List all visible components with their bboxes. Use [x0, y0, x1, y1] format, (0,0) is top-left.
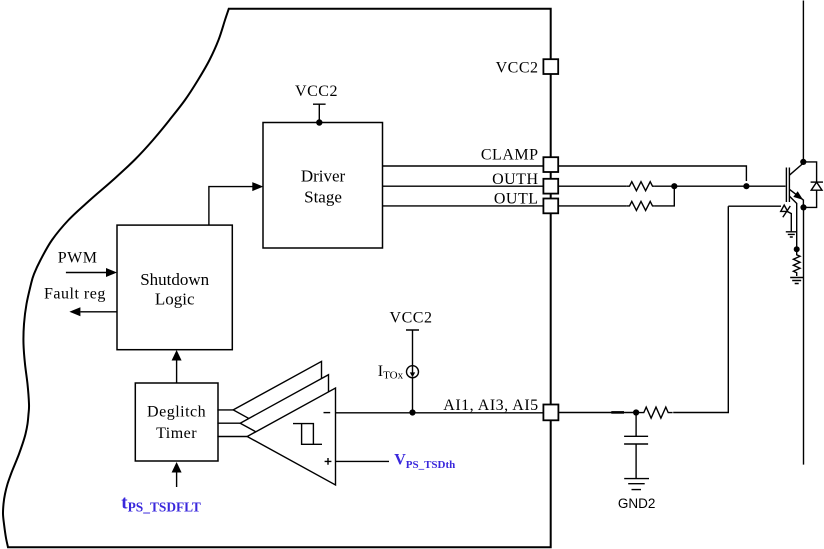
junction dot AI filter	[633, 409, 639, 415]
wire deglitch timer to shutdown logic with arrow	[172, 350, 182, 383]
PWM input label and arrow	[58, 249, 117, 277]
svg-text:AI1, AI3, AI5: AI1, AI3, AI5	[443, 397, 538, 414]
junction dot sense emitter	[794, 246, 800, 252]
ground 2 (sense resistor)	[790, 278, 803, 284]
comparator (front)	[247, 388, 335, 485]
current source ITOx	[407, 366, 419, 413]
hysteresis symbol inside comparator	[293, 424, 322, 445]
svg-text:VCC2: VCC2	[390, 310, 433, 327]
svg-text:CLAMP: CLAMP	[481, 147, 539, 164]
sense diode with strike	[728, 205, 791, 231]
svg-text:Logic: Logic	[155, 290, 195, 309]
svg-text:Timer: Timer	[156, 425, 197, 442]
resistor R gate low (OUTL)	[627, 201, 655, 210]
svg-text:Fault reg: Fault reg	[44, 286, 106, 303]
pin OUTL with label and wire	[383, 186, 675, 213]
emitter wire down	[803, 207, 805, 464]
svg-text:VCC2: VCC2	[496, 60, 539, 77]
resistor AI filter	[636, 407, 673, 418]
svg-text:Stage: Stage	[304, 188, 342, 207]
comparator U1 stack of three (back)	[233, 361, 321, 458]
svg-text:VCC2: VCC2	[295, 83, 338, 100]
chip boundary outline	[3, 9, 551, 548]
svg-text:ITOx: ITOx	[378, 363, 404, 382]
svg-text:GND2: GND2	[618, 496, 656, 511]
Shutdown Logic box	[117, 225, 232, 350]
Fault reg output label and arrow	[44, 286, 117, 317]
capacitor C filter	[624, 413, 648, 479]
junction dot gate resistors	[671, 183, 677, 189]
comparator (middle)	[240, 375, 328, 472]
emitter node dot	[800, 204, 806, 210]
t_PS_TSDFLT input arrow	[172, 462, 182, 487]
thick dash on AI wire	[611, 411, 624, 414]
svg-text:OUTL: OUTL	[494, 191, 539, 208]
svg-text:Deglitch: Deglitch	[147, 403, 206, 420]
ground (sense diode)	[786, 232, 797, 237]
wire AI network vertical	[673, 206, 728, 412]
wire comparator minus to AI pin	[336, 412, 544, 414]
t_PS_TSDFLT blue label	[121, 493, 201, 515]
svg-text:PWM: PWM	[58, 249, 98, 266]
collector node dot	[800, 159, 806, 165]
sense resistor vertical	[793, 249, 800, 276]
pin CLAMP with label and wire	[383, 147, 747, 182]
pin VCC2 top right	[496, 59, 559, 76]
collector wire up	[802, 1, 804, 162]
Deglitch Timer box	[135, 383, 218, 461]
svg-text:Driver: Driver	[301, 166, 346, 185]
junction dot clamp-gate	[743, 183, 749, 189]
junction dot at ITOx node	[409, 409, 415, 415]
pin OUTH with label and wire	[383, 171, 786, 194]
svg-text:Shutdown: Shutdown	[140, 270, 209, 289]
svg-text:tPS_TSDFLT: tPS_TSDFLT	[121, 493, 201, 515]
minus input label	[324, 412, 331, 414]
wire shutdown logic to driver stage with arrow	[209, 182, 263, 225]
comparator input wires from deglitch timer	[217, 410, 247, 437]
plus input label	[325, 458, 332, 465]
pin AI1, AI3, AI5	[443, 397, 636, 420]
node dot VCC2-driver	[316, 119, 322, 125]
VCC2 supply label above driver stage	[295, 83, 338, 123]
IGBT Q1	[786, 163, 803, 249]
VCC2 supply for current source	[390, 310, 433, 367]
Driver Stage box	[263, 123, 383, 249]
wire + input to VPS_TSDth	[336, 460, 390, 462]
svg-text:VPS_TSDth: VPS_TSDth	[394, 451, 455, 471]
freewheeling diode D1	[803, 162, 823, 208]
ground GND2	[618, 479, 656, 511]
svg-text:OUTH: OUTH	[492, 171, 538, 188]
resistor R gate high (OUTH)	[627, 182, 655, 191]
